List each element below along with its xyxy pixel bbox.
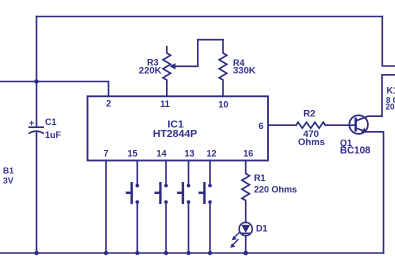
transistor Q1 [349,115,368,134]
svg-text:R2: R2 [303,109,315,120]
wire R3 wiper to R4 top [172,40,223,67]
svg-text:220 Ohms: 220 Ohms [254,185,297,195]
svg-text:2: 2 [106,99,111,109]
resistor R1 [242,161,250,223]
svg-text:330K: 330K [233,66,256,77]
svg-text:Ohms: Ohms [298,137,325,148]
resistor R4 [219,40,227,97]
svg-text:14: 14 [156,149,166,159]
wire R2 to Q1 base [325,124,354,126]
svg-text:11: 11 [160,99,170,109]
wire C1 to bottom rail [36,132,38,253]
wire top rail to relay K1 [382,17,395,67]
svg-text:16: 16 [243,149,253,159]
svg-text:3V: 3V [3,176,14,186]
svg-text:10: 10 [218,100,228,110]
LED D1 emission arrows [234,232,240,238]
relay K1 box (cut off) [382,75,395,116]
svg-text:HT2844P: HT2844P [153,128,197,140]
svg-text:12: 12 [206,149,216,159]
wire bottom rail [0,252,384,254]
wire left rail upper [36,17,38,82]
svg-text:220K: 220K [139,66,162,77]
wire Q1 emitter to bottom rail [366,132,384,253]
svg-text:C1: C1 [45,117,57,127]
LED D1 [239,222,252,235]
svg-text:BC108: BC108 [340,146,371,157]
svg-text:13: 13 [184,149,194,159]
svg-text:6: 6 [258,121,263,131]
svg-text:+: + [29,118,34,128]
capacitor C1 [29,126,43,128]
node junction left rail [34,79,38,83]
wire pin 6 to R2 [268,124,296,126]
switch S4 (pin 12) [200,161,212,256]
switch S3 (pin 13) [178,161,190,256]
wire left rail to C1 [36,82,38,127]
svg-text:K1: K1 [387,86,395,96]
svg-text:7: 7 [103,149,108,159]
op IC1 box [88,96,269,160]
svg-text:20 m: 20 m [386,103,395,112]
wire top rail [37,16,383,18]
switch S2 (pin 14) [156,161,168,256]
svg-text:B1: B1 [3,166,14,176]
wire battery feed from B1 to pin 2 [0,82,109,97]
svg-text:D1: D1 [256,224,268,234]
node junction bottom left [34,251,38,255]
svg-text:R1: R1 [254,173,266,183]
svg-text:1uF: 1uF [45,130,62,140]
resistor R2 [296,122,325,128]
svg-text:15: 15 [127,149,137,159]
resistor R3 [163,47,171,97]
wire pin 7 to bottom rail [105,161,107,254]
switch S1 (pin 15) [127,161,139,256]
